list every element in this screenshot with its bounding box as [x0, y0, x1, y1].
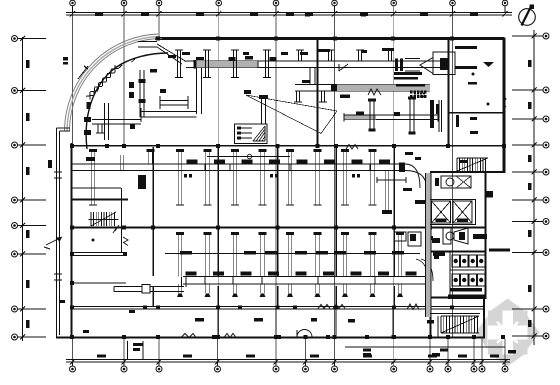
spring break symbol across arc [86, 65, 119, 100]
supply duct A [186, 60, 446, 62]
supply duct B [295, 84, 430, 86]
dot left room [92, 239, 95, 242]
text near arc [63, 57, 68, 61]
long wall y145.8 [72, 145, 505, 147]
watermark logo [476, 299, 540, 367]
elevator shafts [430, 199, 476, 225]
duct C dampers [356, 112, 400, 117]
entrance arrow [44, 237, 62, 249]
corridor duct 2 riser branches [176, 232, 404, 297]
corridor duct 2 [183, 276, 430, 278]
bottom dimension line with grid bubbles [66, 359, 510, 372]
left block branch ducts [92, 70, 146, 140]
curved curtain wall arcs [65, 34, 163, 131]
duct A inlet elbow [138, 41, 157, 43]
top dimension text [95, 13, 478, 16]
top exterior wall [155, 37, 504, 40]
break mark on duct B [368, 89, 381, 95]
duct C riser crosses [368, 97, 416, 135]
right rooms wall y112.5 [448, 112, 504, 114]
right exterior wall upper [503, 38, 506, 174]
AHU unit top right [395, 52, 455, 74]
toilet stalls and fixtures [433, 251, 485, 298]
room and duct labels [60, 14, 516, 357]
black pipe x456 [456, 115, 459, 127]
service core left wall [430, 173, 432, 338]
branch duct C [344, 114, 438, 116]
break on wall y146 [346, 145, 358, 150]
door arc bottom [297, 330, 312, 338]
window break 1 [181, 334, 196, 338]
riser pair x262 [261, 96, 263, 124]
left exterior double wall [57, 128, 71, 338]
inner left wall [71, 143, 73, 337]
flow arrows and dots [472, 62, 495, 106]
corridor duct 1 diffusers [86, 157, 390, 164]
bottom dim vertical [127, 341, 129, 359]
left dimension line with grid bubbles [12, 36, 47, 342]
toilet bottom wall [430, 296, 448, 298]
stair S3 bottom right [430, 314, 480, 338]
bottom-right exterior wall [483, 299, 485, 338]
vertical duct V1 [196, 68, 198, 115]
corridor duct 1 riser branches [89, 149, 377, 205]
grid lines vertical [73, 13, 453, 338]
left block wall y283 [72, 282, 127, 284]
radial tick on arc [78, 66, 88, 79]
window break 2 [224, 334, 236, 338]
duct2 right elbow [416, 259, 428, 281]
duct2 right equipment [394, 232, 406, 241]
corridor duct 1 [72, 163, 403, 165]
top dimension line with grid bubbles [66, 0, 512, 16]
stair S2 right middle [457, 158, 488, 171]
left block wall y188 [72, 187, 122, 189]
left block wall y199.5 [72, 199, 129, 201]
fan unit bottom right [432, 228, 487, 244]
door break x128 upper [503, 95, 506, 107]
right column wall x448 [448, 38, 450, 146]
door break bottom right [407, 304, 419, 310]
door break left block [123, 237, 128, 246]
duct A branch stubs [175, 50, 394, 78]
duct B stubs [294, 91, 327, 102]
duct fitting T1 [141, 96, 188, 122]
bottom dimension text [97, 343, 499, 358]
top band wall x317.5 [317, 38, 319, 146]
grid stubs to bottom dimension [73, 339, 506, 366]
dark riser right of duct C [430, 100, 434, 128]
right dimension line with grid bubbles [512, 30, 549, 345]
duct A-B connector [309, 68, 311, 85]
bottom exterior wall [56, 336, 485, 338]
legend detail box [235, 124, 268, 144]
riser pair x440 [438, 100, 440, 132]
middle band partition walls [153, 147, 394, 306]
valve block below AHU [410, 91, 426, 99]
duct1 end labels [403, 188, 412, 191]
wall y172 right [430, 171, 504, 173]
ticks on inner arc [119, 65, 122, 68]
duct A diffusers and labels [160, 52, 288, 94]
left block wall x121.5 [121, 188, 123, 252]
corridor duct 2 diffusers [186, 272, 417, 276]
arc base blob [87, 102, 91, 109]
north arrow symbol [519, 5, 536, 26]
room labels below duct1 [184, 174, 360, 178]
structural columns [70, 36, 506, 339]
break symbol near stair [113, 225, 119, 233]
duct B dampers [302, 80, 350, 98]
inner curved wall [86, 53, 168, 149]
bottom band partition walls [218, 309, 393, 337]
door break wall y307 b [333, 305, 345, 309]
right exterior wall lower [484, 172, 486, 299]
equipment dot block [414, 93, 425, 98]
fan coil row [165, 253, 420, 255]
AHU labels [300, 48, 425, 87]
toilet top wall [430, 251, 485, 253]
door break wall y307 a [318, 305, 330, 309]
left dimension text [26, 60, 52, 328]
internal dim line [377, 179, 406, 181]
bottom inner dim line [345, 346, 505, 348]
left block wall y253 double [72, 252, 128, 254]
AHU above elevators [435, 176, 471, 188]
riser pair x387 [384, 171, 386, 210]
leader lines triangle [246, 95, 337, 134]
duct B elbow corner [339, 64, 348, 71]
service shaft duct [426, 173, 432, 317]
corridor duct 2 left arm [114, 286, 184, 288]
left wall opening marks [54, 171, 62, 173]
corridor wall y227.5 [72, 227, 486, 229]
left block riser labels [150, 69, 157, 73]
damper line above duct1 [207, 156, 290, 158]
right dimension text [528, 60, 532, 327]
left block diffusers [84, 82, 135, 135]
left branch duct H1 [141, 111, 197, 113]
stair S1 left [89, 212, 119, 226]
riser shaft dark [138, 175, 146, 189]
wall y307 double [72, 306, 485, 308]
